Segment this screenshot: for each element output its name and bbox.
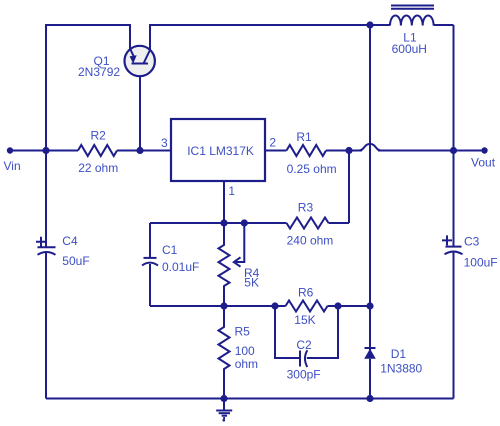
wire right rail lower bbox=[453, 252, 455, 399]
svg-text:15K: 15K bbox=[294, 313, 315, 327]
C4 plus sign bbox=[36, 237, 46, 247]
svg-text:1N3880: 1N3880 bbox=[380, 361, 422, 375]
svg-text:IC1 LM317K: IC1 LM317K bbox=[187, 144, 254, 158]
svg-text:600uH: 600uH bbox=[392, 42, 427, 56]
wire IC pin 1 down bbox=[223, 181, 225, 223]
svg-text:0.01uF: 0.01uF bbox=[162, 260, 199, 274]
junction node wiper top bbox=[241, 219, 248, 226]
inductor L1 core lines bbox=[391, 6, 434, 9]
svg-text:Vin: Vin bbox=[4, 159, 21, 173]
wire mid row to R6 bbox=[275, 305, 286, 307]
svg-text:C4: C4 bbox=[62, 234, 78, 248]
wire Vin to R2 bbox=[10, 150, 78, 152]
junction node top switching bbox=[366, 21, 373, 28]
junction node right rail / Vout bbox=[450, 147, 457, 154]
wire hop over vertical bbox=[359, 144, 381, 151]
transistor Q1 bbox=[125, 46, 155, 76]
capacitor C2 bbox=[300, 350, 307, 367]
capacitor C1 bbox=[142, 258, 158, 306]
op-amp-box IC1 LM317K bbox=[171, 119, 265, 181]
wire hop to Vout bbox=[378, 150, 485, 152]
wire top rail to inductor bbox=[370, 24, 390, 26]
junction node R4/R5 bbox=[220, 302, 227, 309]
wire R3 right lead bbox=[329, 222, 350, 224]
wire C2 branch left bbox=[275, 306, 300, 358]
wire inductor to right rail bbox=[434, 24, 454, 26]
wire C2 branch right bbox=[307, 306, 338, 358]
junction node R6 right / C2 bbox=[334, 302, 341, 309]
resistor R3 bbox=[287, 218, 329, 229]
junction node pin1 / R4 top bbox=[220, 219, 227, 226]
svg-text:2N3792: 2N3792 bbox=[78, 65, 120, 79]
svg-text:R1: R1 bbox=[296, 130, 312, 144]
svg-text:5K: 5K bbox=[244, 276, 259, 290]
resistor R2 bbox=[78, 145, 117, 156]
junction node base/pin3 bbox=[136, 147, 143, 154]
svg-text:ohm: ohm bbox=[235, 357, 258, 371]
wire top rail left segment bbox=[46, 25, 130, 151]
potentiometer R4 bbox=[219, 223, 230, 306]
svg-text:3: 3 bbox=[161, 136, 168, 150]
wire right rail upper bbox=[453, 25, 455, 247]
junction node at left rail / Vin bbox=[42, 147, 49, 154]
terminal Vin bbox=[7, 147, 13, 153]
svg-text:C3: C3 bbox=[464, 235, 480, 249]
svg-text:22 ohm: 22 ohm bbox=[78, 161, 118, 175]
inductor L1 bbox=[390, 15, 434, 25]
svg-text:C2: C2 bbox=[296, 338, 312, 352]
junction node R6 / D1 bbox=[366, 302, 373, 309]
wire left rail upper bbox=[45, 151, 47, 248]
svg-text:1: 1 bbox=[228, 184, 235, 198]
wire C1 branch down bbox=[149, 223, 151, 258]
svg-text:R3: R3 bbox=[298, 201, 314, 215]
terminal Vout bbox=[481, 147, 487, 153]
wire R1 to hop bbox=[326, 150, 362, 152]
wire left rail lower bbox=[45, 253, 47, 399]
wire mid row left bbox=[150, 305, 275, 307]
resistor R6 bbox=[286, 301, 328, 312]
svg-text:R5: R5 bbox=[235, 325, 251, 339]
svg-text:240 ohm: 240 ohm bbox=[287, 233, 334, 247]
wire node to R3 riser bbox=[348, 151, 350, 224]
wire vertical switching net (L1/D1) bbox=[369, 25, 371, 352]
svg-text:R2: R2 bbox=[91, 129, 107, 143]
diode D1 bbox=[364, 348, 376, 399]
svg-text:0.25 ohm: 0.25 ohm bbox=[287, 162, 337, 176]
svg-text:50uF: 50uF bbox=[62, 254, 89, 268]
wire R3 left lead to C1 branch bbox=[150, 222, 287, 224]
wire R6 to switching net bbox=[328, 305, 371, 307]
potentiometer R4 wiper bbox=[236, 223, 244, 262]
junction node R6 left / C2 bbox=[271, 302, 278, 309]
R4 wiper arrowhead bbox=[234, 257, 241, 266]
wire bottom rail bbox=[46, 398, 454, 400]
svg-text:C1: C1 bbox=[162, 243, 178, 257]
ground bbox=[216, 399, 232, 422]
junction node ground bbox=[220, 395, 227, 402]
svg-text:100uF: 100uF bbox=[464, 256, 498, 270]
svg-text:R6: R6 bbox=[298, 286, 314, 300]
wire IC pin 2 to R1 bbox=[265, 150, 287, 152]
wire R2 to IC pin 3 bbox=[117, 150, 171, 152]
capacitor C3 bbox=[445, 247, 463, 255]
svg-text:Vout: Vout bbox=[471, 156, 496, 170]
resistor R1 bbox=[287, 145, 327, 156]
svg-text:2: 2 bbox=[269, 136, 276, 150]
C3 plus sign bbox=[442, 235, 452, 245]
resistor R5 bbox=[219, 306, 230, 399]
junction node R1 output bbox=[345, 147, 352, 154]
wire transistor base down to pin3 net bbox=[139, 64, 141, 151]
svg-text:300pF: 300pF bbox=[287, 368, 321, 382]
wire top rail right segment bbox=[150, 25, 370, 50]
junction node D1 bottom bbox=[366, 395, 373, 402]
capacitor C4 bbox=[38, 247, 56, 255]
svg-text:D1: D1 bbox=[391, 347, 407, 361]
svg-text:100: 100 bbox=[235, 344, 255, 358]
